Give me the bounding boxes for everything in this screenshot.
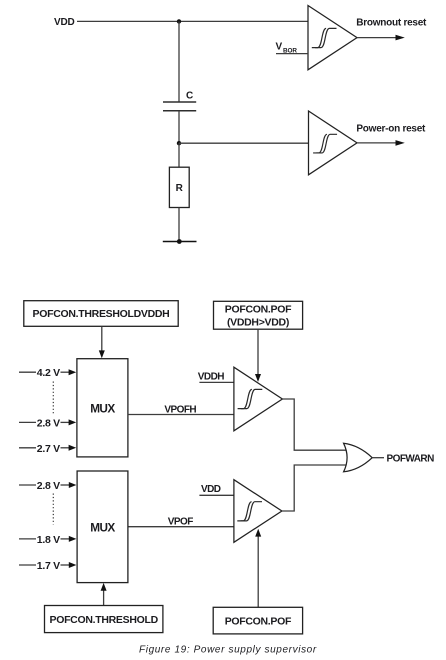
svg-text:2.8 V: 2.8 V — [37, 480, 60, 492]
input 4.2 V — [19, 371, 36, 373]
node junction VDD/C — [177, 19, 181, 23]
svg-text:VPOFH: VPOFH — [164, 404, 196, 415]
wire capacitor to node — [178, 111, 180, 143]
svg-text:VDD: VDD — [201, 484, 221, 495]
wire VDD to capacitor — [178, 21, 180, 102]
wire U4 output to OR — [282, 465, 347, 511]
svg-text:POFCON.THRESHOLDVDDH: POFCON.THRESHOLDVDDH — [33, 308, 170, 320]
svg-text:Power-on reset: Power-on reset — [356, 123, 426, 134]
wire brownout output arrow — [357, 37, 397, 39]
svg-text:Brownout reset: Brownout reset — [356, 18, 427, 29]
box POFCON.POF (VDDH>VDD) — [214, 301, 303, 329]
node junction C/R tap — [177, 141, 181, 145]
capacitor C — [163, 102, 196, 111]
svg-text:MUX: MUX — [90, 401, 115, 415]
input 1.8 V — [19, 538, 36, 540]
wire VBOR input — [276, 53, 308, 55]
wire arrow box to MUX1 — [101, 326, 103, 351]
svg-text:POFCON.POF: POFCON.POF — [225, 304, 292, 316]
svg-text:V: V — [276, 42, 283, 53]
svg-text:2.8 V: 2.8 V — [37, 417, 60, 429]
wire VDDH input — [199, 381, 234, 383]
svg-text:(VDDH>VDD): (VDDH>VDD) — [227, 317, 289, 329]
input 1.7 V — [19, 564, 36, 566]
op-amp U2 power-on comparator — [309, 111, 358, 175]
svg-text:R: R — [176, 183, 184, 194]
wire arrow POFCON.POF to U3 — [257, 329, 259, 374]
op-amp U3 VDDH comparator — [234, 367, 283, 431]
svg-text:POFWARN: POFWARN — [387, 454, 435, 465]
input 2.8 V (MUX2) — [19, 484, 36, 486]
or-gate POFWARN — [344, 443, 373, 472]
wire node to resistor — [178, 143, 180, 167]
op-amp U1 brownout comparator — [308, 6, 357, 70]
mux MUX2 — [77, 471, 128, 583]
box POFCON.THRESHOLDVDDH — [24, 301, 178, 327]
svg-text:C: C — [186, 90, 193, 101]
dotted separator — [52, 382, 54, 415]
svg-text:MUX: MUX — [90, 521, 115, 535]
svg-text:1.8 V: 1.8 V — [37, 534, 60, 546]
wire VPOF — [128, 526, 234, 528]
svg-text:Figure 19: Power supply superv: Figure 19: Power supply supervisor — [139, 644, 317, 655]
wire VPOFH — [128, 414, 234, 416]
svg-text:2.7 V: 2.7 V — [37, 443, 60, 455]
input 2.7 V — [19, 447, 36, 449]
svg-text:POFCON.POF: POFCON.POF — [225, 615, 292, 627]
wire VDD horizontal — [77, 20, 308, 22]
resistor R — [169, 167, 189, 207]
mux MUX1 — [77, 359, 128, 457]
input 2.8 V — [19, 421, 36, 423]
wire arrow POFCON.THRESHOLD to MUX2 — [103, 590, 105, 605]
wire OR output — [372, 457, 384, 459]
svg-text:VDD: VDD — [54, 17, 75, 28]
wire VDD input — [199, 494, 234, 496]
wire tap to comparator U2 — [179, 142, 309, 144]
ground — [163, 241, 197, 243]
wire U3 output to OR — [282, 399, 346, 450]
dotted separator — [52, 494, 54, 525]
box POFCON.POF (bottom) — [213, 607, 302, 634]
svg-text:4.2 V: 4.2 V — [37, 367, 60, 379]
svg-text:1.7 V: 1.7 V — [37, 560, 60, 572]
wire arrow POFCON.POF bottom to U4 — [257, 536, 259, 607]
wire power-on output arrow — [357, 142, 397, 144]
svg-text:VPOF: VPOF — [168, 517, 193, 528]
svg-text:POFCON.THRESHOLD: POFCON.THRESHOLD — [50, 614, 159, 626]
op-amp U4 VDD comparator — [234, 480, 282, 543]
svg-text:VDDH: VDDH — [198, 371, 224, 382]
box POFCON.THRESHOLD — [45, 606, 163, 633]
wire resistor to ground — [178, 208, 180, 242]
